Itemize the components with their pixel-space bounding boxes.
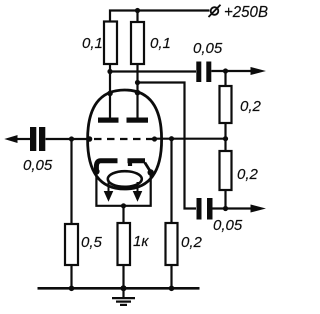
svg-text:0,5: 0,5	[81, 234, 103, 251]
wire R6 to ground rail	[122, 265, 124, 288]
tube V1 envelope	[88, 90, 162, 189]
wire right resistor top lead	[136, 11, 138, 23]
node cathode2 envelope blob	[148, 169, 154, 175]
wire divider top segment	[224, 71, 226, 86]
wire divider mid segment	[224, 123, 226, 151]
svg-text:0,05: 0,05	[213, 217, 243, 234]
node ground rail R6	[121, 285, 127, 291]
wire anode1 lead down from R1	[109, 64, 111, 118]
node ground rail R7	[169, 286, 175, 292]
grid dashed line	[94, 138, 154, 140]
wire A anode1 to top coupling cap	[110, 70, 196, 72]
wire anode2 lead down from R2	[136, 64, 138, 118]
node grid2 leak tap	[169, 136, 174, 141]
resistor R2 0,1 (right anode load)	[131, 22, 144, 64]
node anode1 junction	[107, 69, 112, 74]
svg-text:0,2: 0,2	[240, 98, 262, 115]
wire cathode frame	[96, 172, 150, 206]
heater arrow right	[134, 182, 142, 201]
node junction top rail	[135, 8, 140, 13]
wire top rail from R1 top to +250V terminal	[110, 11, 210, 22]
node anode2 junction	[135, 80, 140, 85]
resistor R1 0,1 (left anode load)	[104, 22, 117, 65]
node bottom output junction	[223, 206, 228, 211]
svg-text:0,1: 0,1	[82, 35, 103, 52]
svg-text:0,05: 0,05	[23, 157, 53, 174]
resistor R7 0,2 (grid2 leak)	[166, 223, 178, 265]
wire R5 to ground rail	[70, 265, 72, 288]
wire input to cap	[16, 138, 30, 140]
output arrow top	[251, 68, 264, 75]
wire grid2 leak lead	[170, 139, 172, 223]
terminal +250V	[209, 5, 221, 17]
wire grid2 from divider midpoint to tube	[156, 138, 226, 140]
svg-text:+250В: +250В	[224, 4, 268, 21]
wire bottom output	[213, 207, 252, 209]
capacitor C1 0,05 (input)	[30, 127, 45, 151]
resistor R6 1k (cathode)	[118, 223, 131, 265]
wire grid1 from cap to tube	[46, 138, 93, 140]
heater arrow left	[105, 182, 113, 201]
node grid1 envelope crossing	[87, 136, 93, 142]
wire cathode to R6	[122, 206, 124, 223]
node ground rail R5	[69, 286, 75, 292]
anode plate 1	[98, 118, 119, 123]
cathode 2	[128, 158, 146, 163]
cathode 1	[96, 161, 117, 172]
svg-text:0,2: 0,2	[181, 234, 203, 251]
cathode 2 lip	[128, 161, 132, 166]
wire R7 to ground rail	[170, 265, 172, 288]
svg-text:0,05: 0,05	[193, 40, 223, 57]
node divider midpoint	[223, 136, 228, 141]
node cathode junction	[121, 203, 126, 208]
input arrow	[6, 136, 17, 143]
output arrow bottom	[251, 205, 264, 212]
svg-text:0,1: 0,1	[150, 35, 171, 52]
node top output junction	[223, 68, 228, 73]
node anode1 envelope crossing	[107, 91, 113, 97]
resistor R3 0,2 (upper divider)	[220, 86, 232, 123]
anode plate 2	[127, 118, 149, 123]
capacitor C3 0,05 (bottom output coupling)	[197, 198, 213, 220]
node grid leak tap	[69, 136, 74, 141]
wire divider bottom segment	[224, 190, 226, 209]
ground symbol	[112, 288, 135, 305]
node cathode1 envelope blob	[93, 168, 99, 174]
wire top output	[211, 70, 251, 72]
resistor R5 0,5 (grid1 leak)	[65, 224, 78, 265]
svg-text:0,2: 0,2	[237, 166, 259, 183]
capacitor C2 0,05 (top output coupling)	[196, 62, 211, 83]
wire ground rail	[38, 287, 200, 290]
node grid2 exit dot	[152, 136, 157, 141]
cathode 2 lead diagonal	[145, 163, 151, 173]
resistor R4 0,2 (lower divider)	[220, 151, 232, 190]
heater ellipse	[108, 171, 142, 187]
node anode2 envelope crossing	[135, 90, 141, 96]
svg-text:1к: 1к	[133, 233, 149, 250]
wire B anode2 down right side to bottom coupling cap	[138, 83, 197, 209]
wire grid leak lead down	[70, 139, 72, 224]
